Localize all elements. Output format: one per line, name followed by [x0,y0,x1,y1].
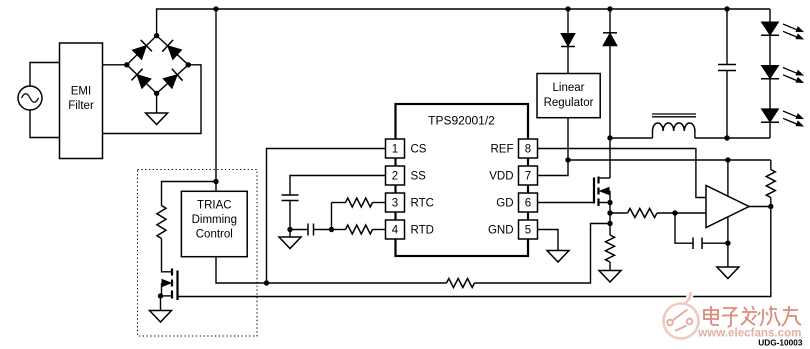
svg-text:Dimming: Dimming [192,214,237,226]
capacitor C_ss [282,195,299,230]
svg-text:TPS92001/2: TPS92001/2 [428,114,495,128]
node TRIAC branch [213,179,218,184]
wire TRIAC branch to resistor [162,182,217,206]
node switch node [607,135,612,140]
node VDD linear reg [565,157,570,162]
watermark www.elecfans.com [697,327,801,340]
transistor Q2 (main switch) [594,160,610,206]
wire opamp supply [727,160,729,196]
wire R_rtd to pin4 [373,229,386,231]
wire VDD rail [568,159,771,161]
wire TRIAC box to CS node [216,257,267,283]
resistor R_rtc [346,198,373,207]
wire rail to LED chain [769,9,771,22]
wire pin8 REF to op-amp + [538,149,707,198]
node rail TRIAC tap [213,6,218,11]
node bridge right [186,62,191,67]
wire EMI to bridge left node [103,64,127,66]
svg-text:GND: GND [488,225,514,237]
wire VDD to R_pu [770,160,772,170]
bridge diode D1 (left to top) [133,40,152,59]
svg-text:SS: SS [411,171,427,183]
node RTD junction [329,227,334,232]
dashed TRIAC enclosure [138,170,258,337]
svg-text:TRIAC: TRIAC [197,200,232,212]
svg-text:2: 2 [392,171,398,183]
node rail linear-reg diode tap [565,6,570,11]
wire C_ss node to C_rt [290,229,308,231]
svg-text:UDG-10003: UDG-10003 [758,338,803,348]
wire pin6 GD to Q2 gate [538,202,595,204]
wire rail to TRIAC section [215,9,217,191]
wire switch node to Q2 drain [609,138,611,160]
resistor R_pu [766,170,775,198]
node CS junction [264,280,269,285]
capacitor C_f [693,238,702,250]
transistor Q1 (TRIAC dimming FET) [161,269,178,301]
wire pin5 to ground [538,230,559,251]
node op-amp - input [672,210,677,215]
wire R_f to op-amp - [657,212,706,214]
wire LED3 to inductor line [769,122,771,138]
op-amp U2 comparator [706,186,749,228]
watermark logo [664,292,699,339]
svg-text:CS: CS [411,144,427,156]
node opamp output [768,204,773,209]
wire Q1 gate to bottom line [177,296,179,298]
svg-text:RTD: RTD [411,225,434,237]
label UDG-10003 [758,338,803,348]
wire Linear Regulator to VDD [567,118,569,160]
svg-text:Filter: Filter [68,100,94,112]
node sense tap 1 [607,210,612,215]
svg-text:1: 1 [392,144,398,156]
svg-text:EMI: EMI [71,86,91,98]
ground below R_sense [599,262,621,282]
svg-text:Control: Control [196,229,233,241]
svg-text:REF: REF [491,144,514,156]
svg-text:3: 3 [392,198,398,210]
svg-text:8: 8 [525,144,531,156]
node sense tap 2 [607,221,612,226]
wire R_pu to output node [770,198,772,207]
wire Q2 source to R_f [610,212,628,214]
svg-text:6: 6 [525,198,531,210]
resistor R_cs [447,279,475,288]
ground below Q1 [150,296,172,322]
wire rail to D_fw [609,9,611,33]
wire EMI to bridge right node [103,65,202,134]
AC source V1 [18,86,42,110]
wire top rail [157,9,770,36]
ground below bridge [146,93,168,124]
svg-text:4: 4 [392,225,399,237]
svg-text:7: 7 [525,171,531,183]
LED D3 [761,109,803,126]
svg-text:VDD: VDD [489,171,513,183]
bridge rectifier edges [127,36,189,94]
node rail output cap tap [724,6,729,11]
wire AC top to EMI [30,63,60,87]
resistor R_sense [606,235,615,262]
Linear Regulator block [537,74,600,118]
node bridge bottom [154,91,159,96]
capacitor C_rt [308,224,314,236]
node C_f gnd junction [725,241,730,246]
watermark 电子发烧友 [704,306,801,327]
TRIAC Dimming Control block [181,191,247,256]
wire to R_rtc [332,202,346,204]
wire opamp output to Q1 gate [178,207,771,297]
wire pin1 CS to bottom node [267,149,386,284]
svg-text:Regulator: Regulator [544,97,594,109]
svg-text:Linear: Linear [553,82,585,94]
ground below C_ss [279,230,301,249]
wire R_triac to Q1 drain [162,239,173,272]
op-amp U1 controller IC TPS92001/2 body [396,104,529,256]
ground below op-amp [717,267,739,279]
pins 5-8 GND GD VDD REF [488,139,538,239]
node Q1 source [158,293,163,298]
wire AC bottom to EMI [30,110,60,138]
bridge diode D2 (right to top) [162,40,181,59]
LED D2 [761,66,803,83]
wire opamp output [749,206,771,208]
wire to R_rtd [332,229,346,231]
wire - node down to C_f [675,213,693,243]
node C_ss bottom [287,227,292,232]
node output cap bottom [724,135,729,140]
bridge diode D3 (bottom to left) [131,69,150,88]
LED D1 [761,22,803,39]
wire rail to D_lin [567,9,569,34]
svg-text:5: 5 [525,225,531,237]
wire LED2 to LED3 [769,79,771,109]
resistor R_rtd [346,225,373,234]
ground pin5 [547,251,569,263]
resistor R_f [628,209,658,218]
node VDD opamp supply [725,157,730,162]
inductor L1 [610,114,770,138]
svg-text:GD: GD [496,198,513,210]
wire Q2 source down [609,203,611,236]
wire R_rtc to pin3 [373,202,386,204]
wire CS node to R_cs [267,282,447,284]
pins 1-4 CS SS RTC RTD [386,139,434,239]
wire C_f to opamp gnd line [702,242,728,244]
EMI Filter block [60,43,103,159]
diode D_lin [561,34,575,74]
diode D_fw (freewheel) [603,33,617,138]
wire pin7 VDD up [538,160,569,176]
node bridge left [124,62,129,67]
wire R_cs to source sense [475,224,611,284]
wire C_rt to RTD node [314,229,332,231]
node rail freewheel diode tap [607,6,612,11]
wire LED1 to LED2 [769,36,771,66]
node bridge top [154,33,159,38]
wire opamp gnd [727,217,729,267]
wire pin2 SS to C_ss [290,176,386,196]
bridge diode D4 (bottom to right) [163,69,182,88]
svg-text:RTC: RTC [411,198,434,210]
node Q2 source body [607,200,612,205]
resistor R_triac [157,206,166,239]
capacitor C_out [718,9,736,138]
wire RTD node up to R_rtc [331,203,333,230]
